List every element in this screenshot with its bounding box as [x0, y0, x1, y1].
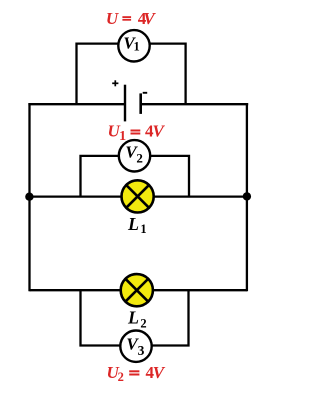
wire: battery row right segment: [141, 103, 249, 105]
voltmeter V1: [118, 30, 149, 61]
battery plus label: [112, 80, 118, 86]
wire: left outer vertical: [28, 103, 30, 291]
battery cell: long positive plate: [124, 85, 126, 122]
svg-text:U: U: [106, 9, 119, 28]
voltmeter V2: [119, 140, 150, 171]
svg-text:2: 2: [136, 151, 143, 166]
svg-text:1: 1: [133, 40, 139, 54]
label L1: [127, 214, 147, 236]
svg-text:V: V: [143, 9, 156, 28]
battery cell: short negative plate: [139, 93, 142, 114]
lamp L2: [121, 274, 153, 306]
wire: voltmeter V3 loop: [81, 290, 189, 345]
svg-text:2: 2: [118, 370, 124, 384]
svg-text:3: 3: [138, 343, 145, 358]
svg-text:L: L: [127, 308, 139, 328]
wire: voltmeter V1 loop: [77, 44, 186, 105]
wire: middle row through lamp L1: [30, 195, 247, 197]
wire: bottom row through lamp L2: [30, 289, 247, 291]
svg-text:1: 1: [140, 222, 146, 236]
voltmeter V3: [120, 331, 151, 362]
svg-text:2: 2: [140, 317, 146, 331]
svg-text:L: L: [127, 214, 139, 234]
wire: voltmeter V2 loop: [81, 156, 190, 197]
label U2 = 4V: [107, 363, 166, 384]
svg-text:V: V: [153, 121, 166, 140]
svg-text:V: V: [153, 363, 166, 382]
wire: right outer vertical: [246, 103, 248, 291]
label U1 = 4V: [107, 121, 165, 144]
label U = 4V (red): [106, 9, 157, 28]
junction dot right: [243, 192, 251, 200]
lamp L1: [122, 180, 154, 212]
wire: battery row left segment: [28, 103, 125, 105]
svg-text:1: 1: [119, 129, 126, 144]
battery minus label: [143, 92, 148, 94]
junction dot left: [25, 193, 33, 201]
label L2: [127, 308, 147, 331]
